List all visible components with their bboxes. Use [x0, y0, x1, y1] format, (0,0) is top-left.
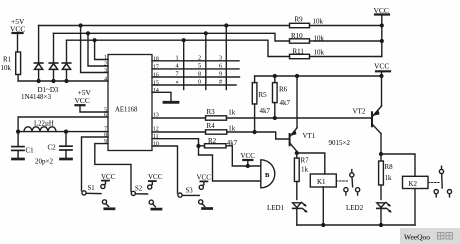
node dot VCC buzzer: [246, 164, 250, 168]
inductor L 22uH: [18, 127, 108, 132]
svg-text:10k: 10k: [314, 48, 325, 56]
transistor VT2: [372, 76, 382, 154]
buzzer B: [261, 160, 275, 188]
node dot R5/R4: [253, 130, 257, 134]
resistor R10: [290, 39, 310, 43]
relay K2: [403, 176, 429, 188]
label +5V VCC pin5: [75, 88, 92, 105]
svg-text:R5: R5: [259, 91, 268, 99]
label S3 VCC: [186, 174, 212, 195]
label VT2: [353, 108, 366, 116]
svg-text:1: 1: [104, 55, 107, 61]
wire VT2 collector to K2: [381, 154, 415, 176]
svg-text:R1: R1: [3, 56, 12, 64]
svg-text:1N4148×3: 1N4148×3: [21, 93, 52, 101]
svg-text:VT2: VT2: [353, 108, 366, 116]
wire pin 6 oscillator top: [18, 117, 108, 132]
node dot VT1 collector: [295, 151, 299, 155]
label keypad digits: [176, 54, 223, 87]
resistor R7: [294, 153, 299, 200]
wire pin 9 to S2: [95, 144, 131, 192]
svg-text:*: *: [176, 80, 179, 87]
svg-text:R8: R8: [385, 163, 394, 171]
power VCC top right: [375, 15, 389, 57]
svg-text:S1: S1: [88, 185, 95, 192]
svg-text:4k7: 4k7: [260, 107, 271, 115]
label VCC top right: [374, 6, 389, 15]
svg-text:1k: 1k: [385, 174, 393, 182]
label K1: [317, 178, 326, 186]
ground C1: [13, 158, 24, 161]
resistor R5: [252, 76, 257, 132]
wire R2 node to buzzer bottom: [199, 146, 261, 181]
diode D2: [49, 33, 58, 81]
node junction D2 bus: [51, 79, 55, 83]
svg-text:C2: C2: [48, 144, 57, 152]
label R5 4k7: [259, 91, 271, 115]
label LED1: [267, 204, 285, 212]
svg-text:K2: K2: [409, 180, 418, 188]
wire R11 to VCC vertical: [310, 56, 382, 58]
power VCC mid right: [376, 71, 390, 76]
wire R10 to VCC rail: [310, 40, 382, 42]
label D1~D3 1N4148x3: [21, 86, 59, 101]
keypad column 3: [225, 26, 227, 90]
svg-text:R2: R2: [208, 137, 217, 145]
label R2 4k7: [208, 137, 238, 147]
svg-text:4: 4: [104, 77, 107, 83]
svg-text:VT1: VT1: [303, 132, 316, 140]
wire pin 12 to R4: [152, 131, 206, 133]
wire bottom rail: [297, 224, 415, 226]
ground C2: [61, 158, 72, 161]
label B: [265, 172, 270, 179]
power +5V VCC top-left: [13, 33, 23, 52]
contact K2: [428, 166, 452, 197]
wire bus2 (to R10): [54, 33, 290, 41]
node dot R9 rail: [380, 23, 384, 27]
diode D1: [34, 26, 43, 82]
node dot bus3-pin1: [93, 38, 97, 42]
node dot bus2-col2: [204, 31, 208, 35]
label AE1168: [115, 107, 138, 114]
node dot R10 rail: [380, 39, 384, 43]
svg-text:L22µH: L22µH: [34, 121, 54, 128]
node dot bus3-col1: [182, 38, 186, 42]
ground S3: [203, 207, 212, 210]
node dot rail VT1 emitter: [295, 74, 299, 78]
keypad row 4 (pin 15): [152, 84, 236, 86]
svg-text:C1: C1: [26, 146, 35, 154]
watermark WeeQoo: [400, 228, 460, 244]
svg-text:R9: R9: [295, 16, 304, 24]
wire bus3 (to R11): [67, 40, 290, 56]
svg-text:2: 2: [198, 54, 201, 61]
label S1 VCC: [88, 173, 116, 192]
keypad column 2: [205, 33, 207, 89]
svg-text:5: 5: [198, 62, 201, 69]
svg-text:VCC: VCC: [374, 62, 389, 71]
svg-text:R3: R3: [207, 108, 216, 116]
svg-text:9: 9: [219, 71, 222, 78]
node dot bus1-col3: [224, 23, 228, 27]
label R10 10k: [291, 32, 325, 43]
svg-text:WeeQoo: WeeQoo: [404, 232, 430, 241]
svg-text:8: 8: [104, 133, 107, 139]
wire bus1 (to R9): [39, 25, 290, 27]
wire pin 11 to R2: [152, 139, 199, 146]
node dot bus2-pin2: [86, 31, 90, 35]
relay K1: [310, 174, 336, 187]
svg-text:VCC: VCC: [374, 6, 389, 15]
label S2 VCC: [135, 173, 163, 193]
wire VCC emitter rail: [255, 75, 382, 77]
node dot rail VCC stem: [380, 74, 384, 78]
svg-text:S2: S2: [135, 186, 143, 193]
svg-text:R6: R6: [279, 86, 288, 94]
switch S1: [82, 181, 109, 207]
label LED2: [346, 204, 364, 212]
svg-text:VCC: VCC: [148, 173, 163, 181]
svg-text:16: 16: [153, 73, 159, 79]
svg-text:1k: 1k: [301, 166, 309, 174]
wire bus1 to IC pin 3: [81, 26, 108, 73]
diode D3: [62, 40, 71, 81]
svg-text:20p×2: 20p×2: [35, 157, 53, 165]
power VCC buzzer: [243, 160, 252, 166]
label +5V VCC top-left: [10, 17, 25, 34]
label R1 10k: [1, 56, 12, 72]
wire K1 to bottom rail: [322, 187, 324, 225]
svg-text:VCC: VCC: [241, 152, 256, 160]
svg-text:0: 0: [198, 79, 201, 86]
svg-text:VCC: VCC: [75, 96, 90, 105]
ground pin 14: [164, 101, 178, 104]
resistor R8: [379, 154, 384, 200]
IC U1 AE1168 box: [108, 55, 152, 151]
svg-text:8: 8: [198, 71, 201, 78]
label VCC buzzer: [241, 152, 256, 160]
svg-text:18: 18: [153, 56, 159, 62]
label C1: [26, 146, 35, 154]
switch S2: [131, 181, 156, 207]
wire pin 13 to R3: [152, 117, 206, 119]
label C2: [48, 144, 57, 152]
svg-text:4: 4: [176, 62, 179, 69]
ground S2: [152, 208, 161, 211]
svg-text:R11: R11: [293, 48, 305, 56]
resistor R2: [199, 144, 227, 148]
resistor R4: [206, 130, 227, 134]
svg-text:AE1168: AE1168: [115, 107, 138, 114]
svg-text:1k: 1k: [228, 109, 236, 117]
svg-text:S3: S3: [186, 188, 194, 195]
wire VT1 collector to K1: [297, 153, 325, 174]
switch S3: [178, 181, 208, 206]
node dot rail R6: [273, 74, 277, 78]
svg-text:14: 14: [153, 88, 159, 94]
label R8 1k: [385, 163, 394, 182]
svg-text:LED2: LED2: [346, 204, 364, 212]
svg-text:1: 1: [176, 54, 179, 61]
svg-text:7: 7: [176, 71, 179, 78]
svg-text:10k: 10k: [313, 18, 324, 26]
label L22uH: [34, 121, 54, 128]
svg-text:#: #: [219, 79, 222, 86]
transistor VT1: [290, 76, 297, 153]
node dot L right (pin 7): [64, 130, 68, 134]
svg-text:3: 3: [219, 54, 222, 61]
label IC right pin numbers: [153, 56, 159, 147]
resistor R9: [290, 23, 310, 27]
LED2: [377, 202, 392, 225]
svg-text:6: 6: [219, 62, 222, 69]
svg-text:3: 3: [104, 68, 107, 74]
svg-text:4k7: 4k7: [280, 99, 291, 107]
wire pin 8 to S1: [82, 137, 109, 191]
wire diode cathode bus to pin 4: [18, 80, 108, 82]
wire pin 10 to S3: [152, 146, 178, 193]
resistor R1: [16, 52, 21, 81]
label R6 4k7: [279, 86, 291, 108]
svg-text:K1: K1: [317, 178, 326, 186]
node junction D1 bus: [37, 79, 41, 83]
keypad row 3 (pin 16): [152, 76, 240, 78]
label VT1: [303, 132, 316, 140]
keypad row 1 (pin 18): [152, 60, 239, 62]
label R11 10k: [293, 48, 325, 57]
label 20p x2: [35, 157, 53, 165]
svg-text:15: 15: [153, 81, 159, 87]
svg-text:2: 2: [104, 62, 107, 68]
resistor R11: [290, 54, 310, 58]
label R7 1k: [301, 157, 310, 174]
node junction D3 bus: [64, 79, 68, 83]
node dot R6/R3: [273, 116, 277, 120]
svg-text:9015×2: 9015×2: [329, 139, 351, 147]
resistor R3: [206, 116, 227, 120]
LED1: [293, 202, 308, 225]
capacitor C2: [60, 132, 72, 158]
capacitor C1: [12, 132, 24, 158]
ground S1: [105, 207, 114, 210]
svg-text:VCC: VCC: [10, 25, 25, 34]
label R4 1k: [207, 122, 236, 132]
wire bus2 to IC pin 2: [88, 33, 108, 66]
svg-text:10k: 10k: [1, 64, 12, 72]
power +5V VCC at pin 5: [76, 105, 109, 112]
node dot VT2 collector: [379, 152, 383, 156]
node dot K1 rail: [321, 223, 325, 227]
label R9 10k: [295, 16, 324, 26]
node dot R2 left: [196, 144, 200, 148]
wire R9 to VCC rail: [310, 25, 382, 27]
node dot L left: [16, 130, 20, 134]
keypad column 1: [183, 40, 185, 89]
label VCC mid right: [374, 62, 389, 71]
wire pin 14 to ground: [152, 92, 171, 101]
contact K1: [336, 170, 359, 195]
svg-text:VCC: VCC: [101, 173, 116, 181]
wire R3 to VT2 base: [227, 117, 372, 119]
wire bus3 to IC pin 1: [95, 40, 108, 59]
wire K2 to bottom rail: [414, 189, 416, 226]
svg-text:R4: R4: [207, 122, 216, 130]
svg-text:B: B: [265, 172, 270, 179]
node dot LED2 rail: [379, 223, 383, 227]
svg-text:R7: R7: [301, 157, 310, 165]
node dot bus1-pin3: [79, 23, 83, 27]
svg-text:17: 17: [153, 64, 159, 70]
label R3 1k: [207, 108, 236, 117]
resistor R6: [273, 76, 278, 118]
wire R2 right to buzzer top: [226, 146, 261, 166]
label K2: [409, 180, 418, 188]
svg-text:R10: R10: [291, 32, 303, 40]
keypad row 2 (pin 17): [152, 68, 239, 70]
svg-text:VCC: VCC: [197, 174, 212, 182]
wire R4 to VT1 base: [227, 132, 289, 139]
label IC left pin numbers: [104, 55, 107, 145]
svg-text:LED1: LED1: [267, 204, 285, 212]
label 9015x2: [329, 139, 351, 147]
